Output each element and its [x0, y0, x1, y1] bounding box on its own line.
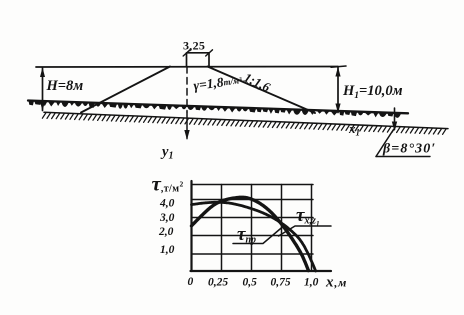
svg-text:0,25: 0,25 [208, 277, 228, 289]
label tau_x,z1 with underline and leader [279, 205, 332, 236]
center axis dashed [186, 67, 188, 113]
dimension H left vertical with arrows [40, 67, 45, 111]
svg-text:2,0: 2,0 [158, 226, 174, 238]
svg-text:γ=1,8т/м³: γ=1,8т/м³ [193, 72, 243, 93]
crest dimension bracket 3,25 [183, 50, 212, 67]
soil hatch ticks [42, 113, 446, 135]
svg-text:3,0: 3,0 [159, 212, 175, 224]
svg-text:x1: x1 [348, 121, 360, 138]
grid verticals [222, 185, 312, 272]
svg-text:x,м: x,м [325, 275, 347, 291]
curve tau_pr [192, 202, 316, 271]
slope point arrow down [392, 108, 397, 131]
svg-text:y1: y1 [160, 144, 173, 162]
dimension H1 right vertical with arrows [331, 66, 346, 113]
svg-text:H=8м: H=8м [46, 78, 84, 94]
svg-text:4,0: 4,0 [159, 198, 175, 210]
svg-text:τ,т/м2: τ,т/м2 [152, 172, 184, 196]
svg-text:1,0: 1,0 [160, 244, 175, 256]
y1 axis arrow down [184, 112, 189, 140]
beta angle leg [376, 130, 394, 157]
ground texture blobs [29, 101, 402, 118]
svg-text:0,5: 0,5 [243, 277, 258, 289]
dam left slope [81, 67, 170, 113]
svg-text:τпр: τпр [237, 224, 256, 246]
graph y axis [190, 181, 192, 271]
ground surface line [28, 101, 408, 114]
svg-text:0,75: 0,75 [271, 277, 291, 289]
top reference line [36, 66, 338, 69]
beta underline [376, 156, 430, 158]
curve tau_x,z1 [192, 197, 309, 270]
svg-text:β=8°30′: β=8°30′ [382, 142, 436, 157]
dam right slope [208, 67, 316, 114]
svg-text:3,25: 3,25 [183, 39, 205, 53]
svg-text:H1=10,0м: H1=10,0м [342, 83, 403, 101]
graph x axis [191, 270, 332, 272]
soil base line [44, 112, 448, 128]
label tau_pr with underline and leader [233, 224, 283, 246]
svg-text:0: 0 [188, 276, 194, 288]
svg-text:1,0: 1,0 [304, 277, 319, 289]
svg-text:τx,z1: τx,z1 [296, 205, 320, 228]
svg-text:1:1,6: 1:1,6 [242, 70, 273, 95]
grid horizontals [192, 185, 314, 255]
